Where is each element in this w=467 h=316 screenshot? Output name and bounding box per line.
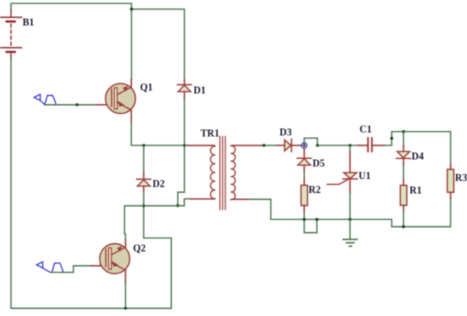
node D4 branch junction xyxy=(402,130,405,133)
wire secondary bottom to ground rail xyxy=(249,199,451,227)
svg-text:D2: D2 xyxy=(153,179,165,190)
svg-text:B1: B1 xyxy=(23,18,35,29)
svg-text:TR1: TR1 xyxy=(201,128,220,139)
wire D2 bottom through mid wire, down and over to bottom rail xyxy=(144,192,172,308)
wire Q2 gate xyxy=(50,266,91,273)
wire branch to D1 xyxy=(132,9,185,80)
node D2 top junction xyxy=(142,144,145,147)
node at bump right corner xyxy=(316,144,319,147)
resistor R1 xyxy=(400,185,407,205)
wire Q1 emitter rail xyxy=(131,122,187,145)
node blue ring after D3 xyxy=(302,143,307,148)
node 4-way cross at emitter rail xyxy=(183,144,186,147)
svg-text:D1: D1 xyxy=(194,85,206,96)
ground xyxy=(343,219,357,246)
battery B1 xyxy=(1,11,22,59)
node on riser xyxy=(390,137,393,140)
wire Q1 gate xyxy=(45,104,97,106)
transformer TR1 xyxy=(188,137,264,210)
node junction top branch xyxy=(130,8,133,11)
node zigzag foot junction xyxy=(176,204,179,207)
node Q2 emitter rail junction xyxy=(124,307,127,310)
wire C1 right up and over right block xyxy=(384,132,450,164)
svg-text:Q2: Q2 xyxy=(133,244,146,255)
node loop right junction xyxy=(315,218,318,221)
diode D1 xyxy=(177,80,191,98)
secondary bottom lead xyxy=(232,198,249,200)
primary winding xyxy=(210,146,215,199)
pulse source for Q1 gate xyxy=(34,94,56,105)
secondary winding xyxy=(231,146,236,200)
thyristor U1 xyxy=(327,145,357,192)
svg-text:D4: D4 xyxy=(412,152,424,163)
wire top rail from battery to Q1 collector xyxy=(11,3,132,79)
node U1/ground junction xyxy=(348,218,351,221)
svg-text:R3: R3 xyxy=(455,173,467,184)
wire D1 bottom to cross and zigzag down xyxy=(178,98,185,206)
svg-text:D3: D3 xyxy=(280,127,292,138)
svg-text:R1: R1 xyxy=(410,185,422,196)
capacitor C1 xyxy=(358,138,384,152)
wire R2 bottom to rail with loop xyxy=(303,206,305,213)
wire Q2 emitter to bottom rail xyxy=(125,282,127,308)
node R2 rail junction xyxy=(303,218,306,221)
node mid-wire/D2 junction xyxy=(142,204,145,207)
svg-text:Q1: Q1 xyxy=(140,83,153,94)
resistor R2 xyxy=(301,185,308,205)
diode D4 xyxy=(396,132,410,165)
wire R1 bottom to rail xyxy=(403,205,405,211)
diode D3 xyxy=(278,139,302,152)
wire U1 cathode to rail and ground xyxy=(349,193,351,220)
primary bottom lead xyxy=(191,198,214,200)
secondary top lead xyxy=(232,144,264,146)
node on secondary lead xyxy=(262,144,265,147)
wire mid horizontal (Q2 collector net) xyxy=(125,199,191,234)
wire D5 to R2 xyxy=(303,173,305,179)
wire secondary top to D3 xyxy=(264,144,278,146)
svg-text:C1: C1 xyxy=(360,125,372,136)
pulse source for Q2 gate xyxy=(37,262,64,273)
core lines xyxy=(219,137,221,210)
wire left rail down to bottom rail xyxy=(11,59,171,309)
wire Q2 collector to mid wire xyxy=(125,234,127,240)
diode D2 xyxy=(137,145,151,192)
diode D5 xyxy=(297,148,311,172)
transistor Q2 (IGBT) xyxy=(100,240,130,283)
wire bump over to C1 xyxy=(304,138,358,145)
node at U1 branch xyxy=(348,144,351,147)
resistor R3 xyxy=(450,164,452,170)
svg-text:U1: U1 xyxy=(359,171,371,182)
primary top lead xyxy=(188,144,215,146)
node on gate wire xyxy=(76,103,79,106)
transistor Q1 (IGBT) xyxy=(106,80,136,123)
wire D4 to R1 xyxy=(403,165,405,180)
svg-text:D5: D5 xyxy=(313,158,325,169)
svg-text:R2: R2 xyxy=(309,185,321,196)
node R1 rail junction xyxy=(402,225,405,228)
